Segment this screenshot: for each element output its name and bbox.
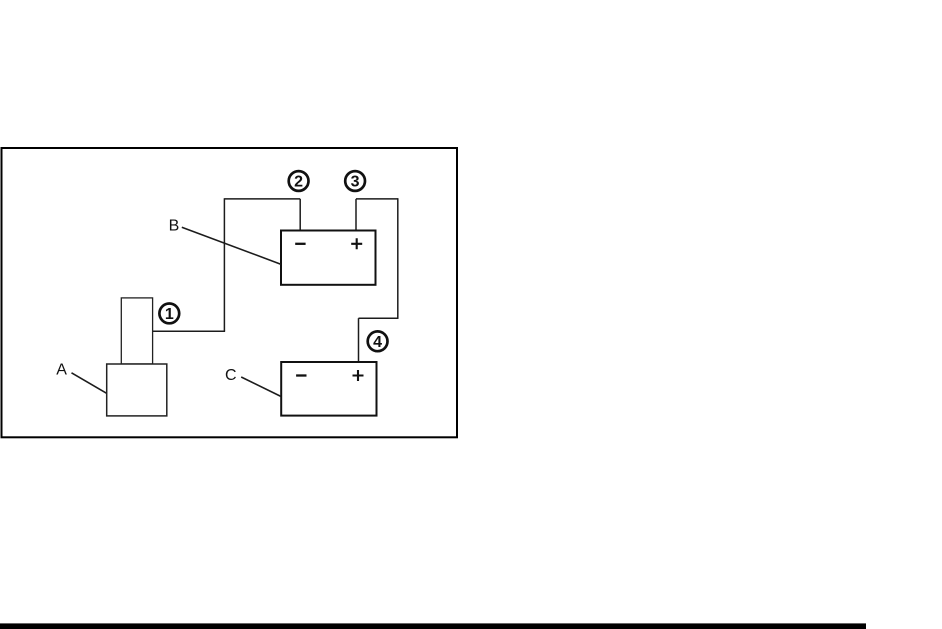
component A stem (remote terminal post) xyxy=(121,298,152,364)
svg-text:4: 4 xyxy=(373,334,382,351)
leader line for label C xyxy=(241,377,281,397)
svg-text:1: 1 xyxy=(165,306,174,323)
page footer rule xyxy=(0,623,866,629)
battery B negative terminal mark xyxy=(295,243,305,245)
wire: drop from callout 2 to battery B negative terminal xyxy=(299,199,301,231)
figure frame xyxy=(2,148,458,437)
svg-text:C: C xyxy=(225,367,237,384)
wire: drop onto battery C positive terminal xyxy=(358,318,360,362)
wire: top-right horizontal from callout 3 drop to right riser xyxy=(356,198,398,200)
battery C negative terminal mark xyxy=(296,374,306,376)
callout 4 circle xyxy=(368,331,388,351)
wire: horizontal into component A stem xyxy=(144,330,225,332)
callout 3 circle xyxy=(345,171,365,191)
battery C (good battery) xyxy=(281,362,376,416)
svg-text:B: B xyxy=(169,218,180,235)
wire: drop from callout 3 to battery B positive terminal xyxy=(355,199,357,231)
leader line for label B xyxy=(182,227,281,264)
svg-text:2: 2 xyxy=(294,174,303,191)
battery B positive terminal mark xyxy=(351,238,362,249)
wire: left riser down toward component A xyxy=(223,198,225,331)
battery B (dead battery) xyxy=(281,231,376,285)
leader line for label A xyxy=(72,373,107,393)
component A base block xyxy=(107,364,167,416)
wire: jog horizontal above battery C xyxy=(359,317,399,319)
wire: top-left horizontal from left riser to callout 2 drop xyxy=(224,198,300,200)
svg-text:3: 3 xyxy=(351,174,360,191)
wire: right riser down toward battery C xyxy=(397,198,399,318)
callout 2 circle xyxy=(289,171,309,191)
svg-text:A: A xyxy=(56,362,67,379)
callout 1 circle xyxy=(159,304,179,324)
battery C positive terminal mark xyxy=(353,370,364,381)
